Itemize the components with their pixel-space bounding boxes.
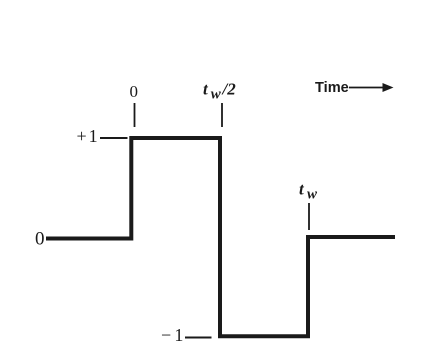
svg-text:0: 0	[130, 82, 139, 101]
svg-text:w: w	[307, 186, 318, 202]
dash after +1 label	[100, 137, 128, 139]
waveform trace (0 to +1 to -1 to 0)	[46, 138, 395, 336]
svg-text:t: t	[203, 80, 209, 99]
label tw/2	[203, 80, 236, 103]
tick at t=tw	[308, 203, 310, 230]
svg-text:w: w	[211, 86, 222, 102]
tick at t=tw/2	[221, 103, 223, 127]
dash after -1 label	[185, 337, 212, 339]
svg-text:−1: −1	[161, 325, 187, 345]
svg-text:0: 0	[35, 229, 45, 250]
svg-text:+1: +1	[77, 126, 100, 146]
svg-text:Time: Time	[315, 80, 349, 96]
svg-text:/2: /2	[221, 80, 237, 99]
svg-text:t: t	[299, 180, 305, 199]
tick at t=0	[134, 103, 136, 127]
time axis arrow	[349, 87, 385, 89]
label tw	[299, 180, 318, 203]
